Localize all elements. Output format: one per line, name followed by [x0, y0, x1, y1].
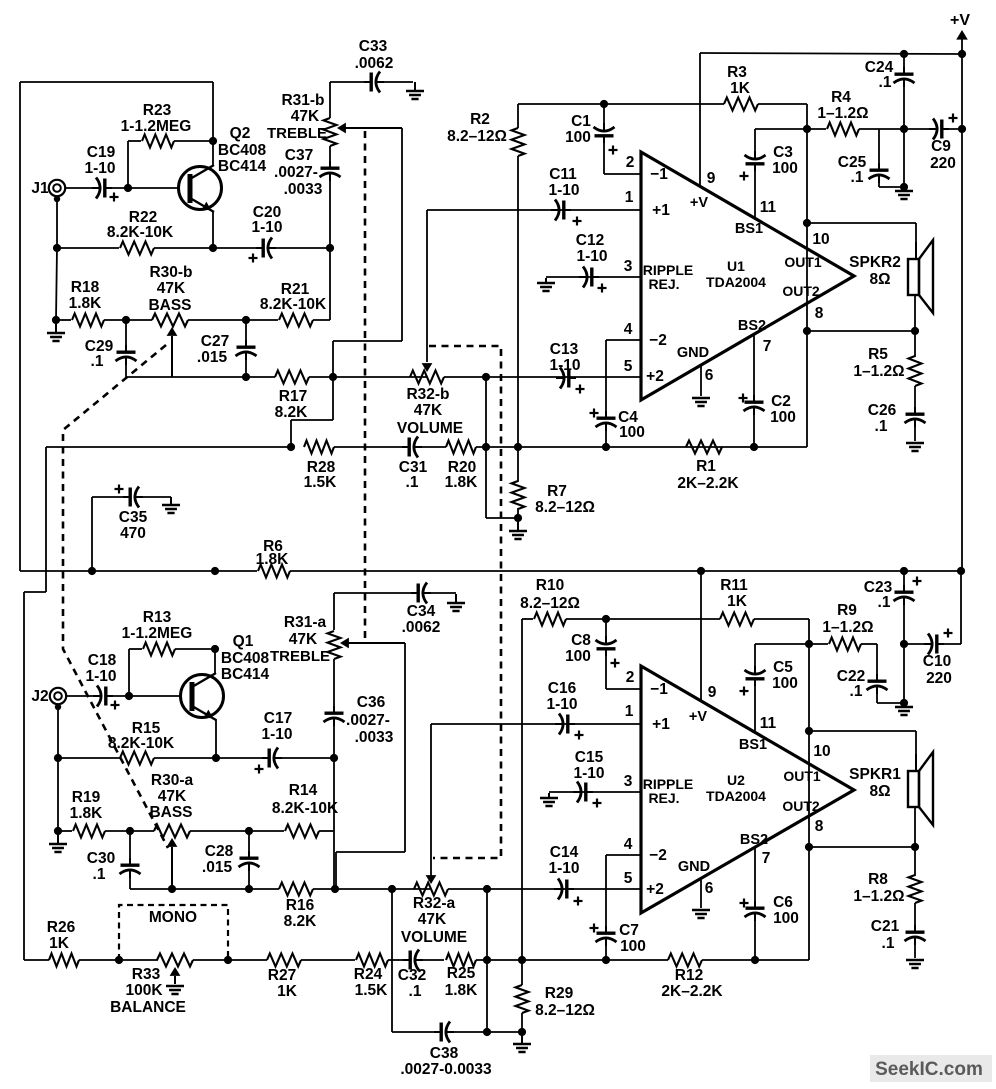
- wire C29 node to R30-b: [126, 319, 152, 321]
- resistor R1: [686, 441, 722, 454]
- svg-text:R18: R18: [71, 279, 100, 296]
- wire R3 corner down: [806, 104, 808, 129]
- svg-text:1-10: 1-10: [85, 668, 116, 685]
- svg-text:1.5K: 1.5K: [304, 474, 338, 491]
- ground C34: [455, 594, 457, 603]
- node C27 bottom: [242, 373, 250, 381]
- wire C28 bottom: [248, 865, 250, 889]
- wire R25 right: [476, 959, 522, 961]
- wire tone bus R17 left: [246, 376, 275, 378]
- wire R3 right: [758, 103, 807, 105]
- svg-text:C17: C17: [264, 710, 292, 727]
- wire C19 to base node: [107, 187, 128, 189]
- svg-text:R27: R27: [268, 967, 296, 984]
- transistor Q2 circle: [179, 167, 222, 210]
- wire R7 top stem: [517, 447, 519, 482]
- wire pin5 bus: [486, 376, 641, 378]
- ground C15: [548, 793, 550, 798]
- svg-text:47K: 47K: [289, 631, 318, 648]
- svg-text:R29: R29: [545, 985, 574, 1002]
- svg-text:11: 11: [760, 199, 777, 216]
- wire R19 to C30 node: [105, 830, 130, 832]
- wire treble wiper vertical ch2: [404, 643, 406, 852]
- node J1 shield bottom: [54, 196, 60, 202]
- capacitor C23: [903, 585, 905, 593]
- svg-text:R30-b: R30-b: [149, 264, 192, 281]
- svg-text:−2: −2: [649, 847, 667, 864]
- node speaker bottom: [911, 327, 919, 335]
- svg-text:R24: R24: [354, 966, 383, 983]
- wire C34 right: [430, 592, 456, 594]
- svg-text:.0062: .0062: [355, 55, 394, 72]
- wire C25 bottom: [878, 177, 880, 187]
- wire volume wiper vertical ch2: [430, 724, 432, 876]
- capacitor C34: [411, 592, 419, 594]
- node C35 branch: [88, 567, 96, 575]
- node C28 bottom: [245, 885, 253, 893]
- wire Q2 collector up: [212, 141, 214, 166]
- svg-text:BASS: BASS: [148, 297, 191, 314]
- svg-text:+V: +V: [950, 12, 970, 29]
- wire feedback left column: [23, 592, 25, 960]
- svg-text:R9: R9: [837, 602, 857, 619]
- wire C27 top: [245, 320, 247, 346]
- ground J2 input: [57, 832, 59, 844]
- svg-text:R3: R3: [727, 64, 747, 81]
- op-amp U1 triangle: [641, 152, 854, 400]
- svg-text:R30-a: R30-a: [151, 772, 194, 789]
- wire Q1 emitter down: [215, 719, 217, 758]
- svg-text:.1: .1: [850, 683, 863, 700]
- svg-text:1-10: 1-10: [84, 160, 115, 177]
- wire +V rail right edge: [961, 54, 963, 129]
- wire R5 to C26: [914, 386, 916, 410]
- node wiper join ch2: [168, 885, 176, 893]
- capacitor C15: [573, 791, 581, 793]
- svg-text:R33: R33: [132, 966, 161, 983]
- wire C24 top: [903, 54, 905, 69]
- svg-text:BC408: BC408: [218, 142, 267, 159]
- wire treble jog horizontal: [333, 340, 402, 342]
- svg-text:1-10: 1-10: [261, 726, 292, 743]
- svg-text:MONO: MONO: [149, 909, 197, 926]
- wire J1 column down: [56, 248, 57, 320]
- wire C3 to pin11: [754, 167, 756, 219]
- speaker SPKR2: [908, 259, 919, 295]
- wire R15 to emitter node: [154, 757, 216, 759]
- node feedback-R7a: [482, 443, 490, 451]
- capacitor C1: [603, 123, 605, 131]
- svg-text:J1: J1: [31, 180, 49, 197]
- svg-text:C36: C36: [357, 694, 386, 711]
- wire C38 left: [392, 1031, 435, 1033]
- svg-text:C9: C9: [931, 138, 951, 155]
- svg-text:.1: .1: [879, 74, 892, 91]
- svg-text:OUT1: OUT1: [784, 254, 822, 270]
- transistor Q1 base bar: [190, 682, 195, 711]
- node bass wire left: [52, 316, 60, 324]
- node emitter-R22 junction: [209, 244, 217, 252]
- dashed MONO switch box: [119, 905, 228, 960]
- node OUT2 wire: [803, 327, 811, 335]
- svg-text:.0033: .0033: [355, 729, 394, 746]
- node R7 top: [514, 443, 522, 451]
- wire base node up to R23: [127, 141, 129, 188]
- wire C22 to gnd node: [877, 702, 904, 704]
- wire volume wiper vertical: [426, 210, 428, 362]
- node C1 top: [600, 100, 608, 108]
- resistor R25: [446, 954, 476, 967]
- node OUT2 wire ch2: [805, 843, 813, 851]
- wire rail to C23: [701, 570, 904, 572]
- svg-text:1-10: 1-10: [548, 182, 579, 199]
- potentiometer R33 BALANCE: [157, 954, 193, 967]
- svg-text:TREBLE: TREBLE: [270, 648, 330, 665]
- svg-text:R12: R12: [675, 967, 703, 984]
- capacitor C22: [876, 674, 878, 682]
- wire base node up to R13: [128, 649, 130, 696]
- svg-text:100: 100: [770, 409, 796, 426]
- wire 487 down: [486, 889, 488, 1032]
- wire C8 to R11: [606, 618, 720, 620]
- wire C22 bottom: [876, 688, 878, 703]
- svg-text:4: 4: [624, 836, 633, 853]
- capacitor C19: [92, 187, 100, 189]
- ground C12: [545, 278, 547, 283]
- svg-text:R14: R14: [289, 782, 318, 799]
- wire R26 to R33 left: [79, 959, 158, 961]
- svg-text:R23: R23: [143, 102, 172, 119]
- resistor R15: [120, 752, 154, 765]
- wire out vertical ch2: [808, 644, 810, 960]
- wire pin4 stub ch2: [606, 854, 641, 856]
- capacitor C2: [753, 395, 755, 403]
- wire bus to R12: [522, 959, 668, 961]
- wire R30-b to C27 node: [188, 319, 246, 321]
- resistor R17: [275, 371, 309, 384]
- wire base node to Q1: [129, 695, 181, 697]
- svg-text:U1: U1: [727, 258, 745, 274]
- transistor Q1 emitter: [192, 706, 216, 720]
- wire C28 node to R14: [249, 830, 284, 832]
- wire C25 to gnd node: [879, 186, 904, 188]
- wire C5 top: [754, 644, 756, 670]
- pot R32-b wiper arrow: [422, 363, 433, 372]
- capacitor C25: [878, 163, 880, 171]
- capacitor C33: [364, 81, 372, 83]
- svg-text:BS1: BS1: [735, 221, 763, 237]
- svg-text:R31-a: R31-a: [284, 614, 327, 631]
- wire C31 to R20: [421, 446, 446, 448]
- wire out vertical: [806, 129, 808, 447]
- wire R17 to treble node: [309, 376, 427, 378]
- svg-text:1-1.2MEG: 1-1.2MEG: [122, 625, 193, 642]
- wire C10 right: [939, 643, 961, 645]
- wire R32-a right: [448, 888, 487, 890]
- ground C22/C23: [895, 706, 913, 709]
- wire R27 to R24: [301, 959, 355, 961]
- node C8 top: [602, 615, 610, 623]
- resistor R3: [724, 98, 758, 111]
- svg-text:C3: C3: [773, 144, 793, 161]
- wire C29 bottom: [125, 359, 127, 377]
- resistor R19: [73, 825, 105, 838]
- svg-text:.0027-: .0027-: [274, 164, 318, 181]
- node base Q1 junction: [125, 692, 133, 700]
- wire R13 left: [129, 648, 142, 650]
- wire R2 down long: [517, 156, 519, 447]
- potentiometer R31-a TREBLE: [328, 631, 341, 659]
- wire R13 right: [175, 648, 215, 650]
- svg-text:470: 470: [120, 525, 146, 542]
- svg-text:47K: 47K: [158, 788, 187, 805]
- wire pin3 bus ch2: [549, 791, 641, 793]
- svg-text:VOLUME: VOLUME: [401, 929, 467, 946]
- node R4 left: [803, 125, 811, 133]
- resistor R13: [143, 643, 175, 656]
- wire treble jog down ch2: [335, 852, 337, 889]
- wire R29 top stem: [521, 960, 523, 985]
- wire pin11 top: [755, 128, 807, 130]
- svg-text:C18: C18: [88, 652, 117, 669]
- resistor R22: [120, 242, 154, 255]
- wire pin9 vertical: [699, 104, 701, 187]
- wire C30 bottom: [129, 872, 131, 889]
- wire J1 to C19: [65, 187, 93, 189]
- wire C3 top: [754, 129, 756, 155]
- svg-text:47K: 47K: [291, 108, 320, 125]
- svg-text:1K: 1K: [730, 80, 751, 97]
- wire R22 left segment: [57, 247, 119, 249]
- node C4 bottom: [602, 443, 610, 451]
- wire R29 bottom stem: [521, 1013, 523, 1032]
- svg-text:1: 1: [625, 189, 634, 206]
- svg-text:.1: .1: [91, 353, 104, 370]
- wire C1 to pin2: [604, 173, 641, 175]
- svg-text:−1: −1: [650, 681, 668, 698]
- svg-text:OUT1: OUT1: [783, 768, 821, 784]
- transistor Q1 collector: [192, 673, 216, 687]
- wire down to R28 wire: [290, 420, 292, 447]
- capacitor C20: [256, 247, 264, 249]
- svg-text:1.8K: 1.8K: [445, 982, 479, 999]
- svg-text:C28: C28: [205, 843, 234, 860]
- potentiometer R31-b TREBLE: [324, 118, 337, 146]
- watermark background: [870, 1055, 992, 1082]
- wire C23 down: [903, 599, 905, 703]
- svg-text:R11: R11: [720, 577, 748, 594]
- wire jog to R28: [291, 419, 333, 421]
- svg-text:1-10: 1-10: [548, 860, 579, 877]
- wire C21 bottom: [914, 939, 916, 958]
- wire speaker bottom stem: [914, 295, 916, 331]
- svg-text:5: 5: [624, 870, 633, 887]
- wire C17 to treble chain: [281, 757, 334, 759]
- svg-text:R31-b: R31-b: [281, 92, 324, 109]
- svg-text:100: 100: [620, 938, 646, 955]
- svg-text:.1: .1: [93, 866, 106, 883]
- ground C35: [170, 497, 172, 505]
- pot R30-a wiper arrow: [171, 847, 173, 888]
- wire feedback to R7 node: [518, 446, 807, 448]
- wire C30 top: [129, 831, 131, 864]
- wire R11 right: [754, 618, 809, 620]
- svg-text:220: 220: [926, 670, 952, 687]
- node rail top right: [958, 50, 966, 58]
- wire R22 to emitter node: [154, 247, 213, 249]
- svg-text:8Ω: 8Ω: [869, 783, 890, 800]
- node OUT1 wire: [803, 219, 811, 227]
- node Q1 collector rail: [211, 567, 219, 575]
- capacitor C29: [125, 345, 127, 353]
- svg-text:8.2–12Ω: 8.2–12Ω: [535, 499, 595, 516]
- wire C8 top stem: [605, 619, 607, 640]
- wire +V box left edge: [19, 82, 21, 571]
- wire to R7 bottom: [486, 517, 518, 519]
- capacitor C27: [245, 340, 247, 348]
- wire R17node down: [332, 377, 334, 420]
- wire R4 left: [807, 128, 826, 130]
- wire pin4 stub: [606, 339, 641, 341]
- wire C18 to base node: [108, 695, 129, 697]
- capacitor C21: [914, 925, 916, 933]
- wire pin4 down ch2: [605, 855, 607, 928]
- ground R29: [521, 1034, 523, 1044]
- capacitor C32: [403, 959, 411, 961]
- svg-text:R10: R10: [536, 577, 564, 594]
- wire feedback jog left: [24, 591, 46, 593]
- svg-text:BS2: BS2: [740, 832, 768, 848]
- wire emitter node to C20: [213, 247, 257, 249]
- svg-text:C10: C10: [923, 653, 951, 670]
- node base Q2 junction: [124, 184, 132, 192]
- wire R23 left: [128, 140, 141, 142]
- resistor R7: [512, 481, 525, 509]
- wire bass left segment: [56, 319, 71, 321]
- connector J1: [49, 180, 65, 196]
- ground R33 wiper: [166, 985, 184, 988]
- wire R2R3 bus: [518, 103, 724, 105]
- wire pin1 bus: [427, 209, 641, 211]
- svg-text:5: 5: [624, 358, 633, 375]
- svg-text:C5: C5: [773, 659, 793, 676]
- wire R30-a to C28 node: [190, 830, 249, 832]
- wire C8 bottom: [605, 652, 607, 689]
- capacitor C5: [754, 666, 756, 674]
- node C24 bottom: [900, 183, 908, 191]
- ground C33: [414, 82, 416, 91]
- svg-text:C1: C1: [571, 113, 591, 130]
- svg-text:.1: .1: [875, 418, 888, 435]
- node R29 bottom: [518, 1028, 526, 1036]
- potentiometer R30-b BASS: [152, 314, 188, 327]
- node C23 bottom: [900, 699, 908, 707]
- potentiometer R32-b VOLUME: [410, 371, 444, 384]
- node treble-volume junction ch2: [331, 885, 339, 893]
- svg-text:2K–2.2K: 2K–2.2K: [677, 475, 739, 492]
- wire C7 bottom: [605, 940, 607, 960]
- node pin9 ch2 rail: [697, 567, 705, 575]
- svg-text:47K: 47K: [418, 911, 447, 928]
- wire C33 right: [383, 81, 413, 83]
- svg-text:8.2–12Ω: 8.2–12Ω: [447, 128, 507, 145]
- resistor R21: [279, 314, 313, 327]
- svg-text:VOLUME: VOLUME: [397, 420, 463, 437]
- wire C28 top: [248, 831, 250, 857]
- svg-text:1.8K: 1.8K: [70, 805, 104, 822]
- wire R33 to R27: [193, 959, 267, 961]
- ground U2 pin6: [692, 909, 710, 912]
- node R29 top: [518, 956, 526, 964]
- node C7 bottom: [602, 956, 610, 964]
- wire C34 corner left: [333, 593, 335, 630]
- wire chain to R14 corner: [333, 758, 335, 889]
- svg-text:GND: GND: [677, 345, 709, 361]
- node C20-C37 junction: [326, 244, 334, 252]
- wire C2 bottom: [753, 409, 755, 447]
- capacitor C4: [605, 411, 607, 419]
- svg-text:8: 8: [815, 818, 824, 835]
- wire pin4 down: [605, 340, 607, 414]
- svg-text:1: 1: [625, 703, 634, 720]
- wire R31-a to C36: [333, 659, 335, 708]
- svg-text:1.5K: 1.5K: [355, 982, 389, 999]
- wire treble wiper vertical: [401, 128, 403, 341]
- wire tone bus left: [126, 376, 246, 378]
- wire R16 to treble node ch2: [313, 888, 430, 890]
- capacitor C31: [402, 446, 410, 448]
- svg-text:BC408: BC408: [221, 650, 270, 667]
- svg-text:+V: +V: [690, 195, 708, 211]
- wire R15 left segment: [58, 757, 120, 759]
- wire collector node to box top: [212, 82, 214, 141]
- wire R31-b to C37: [329, 146, 331, 163]
- svg-text:R2: R2: [470, 111, 490, 128]
- resistor R11: [720, 613, 754, 626]
- capacitor C18: [93, 695, 101, 697]
- wire +V arrow stem: [961, 36, 963, 54]
- svg-text:+2: +2: [646, 881, 664, 898]
- potentiometer R32-a VOLUME: [414, 883, 448, 896]
- svg-text:1.8K: 1.8K: [445, 474, 479, 491]
- wire +V rail ch2 left: [20, 570, 92, 572]
- capacitor C28: [248, 851, 250, 859]
- wire C38 vertical: [391, 889, 393, 1032]
- svg-text:C12: C12: [576, 232, 604, 249]
- svg-text:R5: R5: [868, 346, 888, 363]
- wire pin6 stub ch2: [700, 879, 702, 908]
- wire R8 to C21: [914, 903, 916, 928]
- svg-text:U2: U2: [727, 772, 745, 788]
- wire R24 to C32: [388, 959, 404, 961]
- wire C37 to C20 node: [329, 175, 331, 248]
- wire base node to Q2: [128, 187, 179, 189]
- wire feedback corner down: [45, 447, 47, 592]
- svg-text:OUT2: OUT2: [782, 798, 820, 814]
- svg-text:47K: 47K: [157, 280, 186, 297]
- svg-text:1-10: 1-10: [576, 248, 607, 265]
- svg-text:C26: C26: [868, 402, 897, 419]
- wire +V box top (channel 1): [20, 81, 213, 83]
- ground C21: [906, 959, 924, 962]
- svg-text:TREBLE: TREBLE: [267, 125, 327, 142]
- wire C35 right: [142, 496, 171, 498]
- wire C27 node to R21: [246, 319, 278, 321]
- svg-text:1–1.2Ω: 1–1.2Ω: [817, 105, 868, 122]
- wire C5 to pin11: [754, 682, 756, 733]
- svg-text:R17: R17: [279, 388, 307, 405]
- resistor R12: [668, 954, 702, 967]
